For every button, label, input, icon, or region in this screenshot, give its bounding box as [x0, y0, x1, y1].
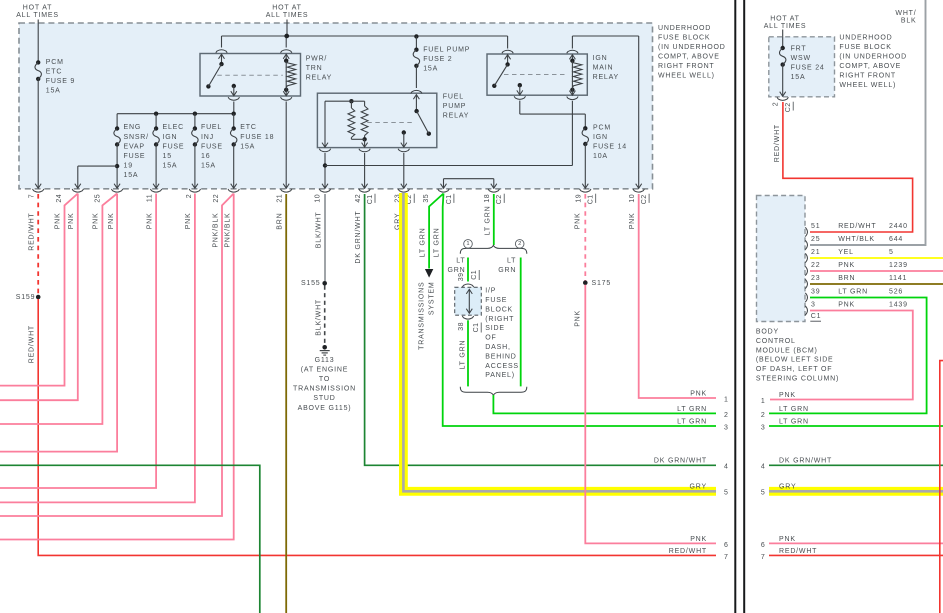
svg-text:1: 1	[724, 396, 729, 403]
svg-text:G113: G113	[315, 357, 335, 364]
svg-text:C1: C1	[473, 322, 480, 332]
svg-text:TRANSMISSIONS: TRANSMISSIONS	[418, 282, 425, 350]
svg-text:PNK: PNK	[146, 213, 153, 230]
svg-text:GRY: GRY	[779, 484, 796, 491]
svg-text:38: 38	[458, 322, 465, 331]
svg-text:ELEC: ELEC	[163, 124, 185, 131]
svg-text:21: 21	[277, 194, 284, 203]
svg-text:C1: C1	[588, 194, 595, 204]
svg-text:ACCESS: ACCESS	[485, 363, 519, 370]
svg-text:5: 5	[724, 490, 729, 497]
svg-text:RIGHT FRONT: RIGHT FRONT	[839, 73, 896, 80]
svg-text:COMPT, ABOVE: COMPT, ABOVE	[658, 54, 720, 61]
svg-text:4: 4	[724, 464, 729, 471]
svg-text:LT GRN: LT GRN	[838, 289, 868, 296]
svg-text:HOT AT: HOT AT	[23, 5, 52, 12]
svg-text:PNK: PNK	[838, 262, 855, 269]
svg-text:22: 22	[811, 262, 820, 269]
svg-text:BLK/WHT: BLK/WHT	[315, 299, 322, 336]
svg-text:FUSE: FUSE	[485, 297, 507, 304]
svg-text:2: 2	[772, 102, 779, 106]
svg-text:RED/WHT: RED/WHT	[28, 213, 35, 251]
svg-text:PNK: PNK	[779, 536, 796, 543]
svg-text:FUSE: FUSE	[163, 143, 185, 150]
svg-text:21: 21	[811, 249, 820, 256]
svg-text:INJ: INJ	[201, 134, 214, 141]
svg-text:C2: C2	[641, 194, 648, 204]
svg-text:PNK/BLK: PNK/BLK	[212, 213, 219, 248]
svg-text:LT GRN: LT GRN	[779, 418, 809, 425]
svg-text:(IN UNDERHOOD: (IN UNDERHOOD	[839, 54, 907, 61]
svg-text:BLOCK: BLOCK	[485, 306, 513, 313]
svg-text:CONTROL: CONTROL	[756, 338, 796, 345]
svg-text:C2: C2	[785, 102, 792, 112]
svg-text:WHT/BLK: WHT/BLK	[838, 236, 875, 243]
svg-text:I/P: I/P	[485, 288, 496, 295]
svg-text:ETC: ETC	[240, 124, 256, 131]
svg-text:DASH,: DASH,	[485, 344, 510, 351]
svg-text:1439: 1439	[889, 302, 908, 309]
svg-text:BRN: BRN	[838, 275, 855, 282]
svg-text:24: 24	[56, 194, 63, 203]
svg-text:RED/WHT: RED/WHT	[838, 223, 876, 230]
svg-text:IGN: IGN	[163, 134, 178, 141]
svg-text:STEERING COLUMN): STEERING COLUMN)	[756, 376, 839, 383]
svg-text:BLK: BLK	[901, 18, 917, 25]
svg-text:DK GRN/WHT: DK GRN/WHT	[779, 458, 832, 465]
svg-text:SIDE: SIDE	[485, 325, 505, 332]
svg-text:HOT AT: HOT AT	[770, 16, 799, 23]
svg-text:MAIN: MAIN	[593, 64, 614, 71]
svg-text:C1: C1	[811, 313, 822, 320]
svg-text:2: 2	[186, 194, 193, 198]
svg-text:2: 2	[761, 412, 766, 419]
svg-text:RED/WHT: RED/WHT	[28, 325, 35, 363]
svg-text:COMPT, ABOVE: COMPT, ABOVE	[839, 63, 901, 70]
svg-text:(IN UNDERHOOD: (IN UNDERHOOD	[658, 44, 726, 51]
svg-text:RELAY: RELAY	[443, 113, 469, 120]
svg-text:FUSE BLOCK: FUSE BLOCK	[658, 35, 710, 42]
svg-text:5: 5	[889, 249, 894, 256]
svg-text:6: 6	[724, 542, 729, 549]
svg-text:RED/WHT: RED/WHT	[669, 548, 707, 555]
svg-text:FUSE 24: FUSE 24	[791, 64, 825, 71]
svg-text:RIGHT FRONT: RIGHT FRONT	[658, 63, 715, 70]
svg-text:16: 16	[201, 153, 210, 160]
svg-text:PNK: PNK	[690, 390, 707, 397]
svg-text:42: 42	[355, 194, 362, 203]
svg-text:2: 2	[518, 241, 521, 247]
svg-text:FUSE 9: FUSE 9	[46, 78, 75, 85]
svg-text:23: 23	[811, 275, 820, 282]
svg-text:15A: 15A	[240, 143, 255, 150]
svg-text:5: 5	[761, 490, 766, 497]
svg-text:19: 19	[576, 194, 583, 203]
svg-text:15A: 15A	[163, 163, 178, 170]
svg-text:ETC: ETC	[46, 68, 62, 75]
svg-text:PCM: PCM	[46, 59, 64, 66]
svg-text:(AT ENGINE: (AT ENGINE	[301, 366, 348, 373]
svg-text:FUSE: FUSE	[124, 153, 146, 160]
svg-text:LT GRN: LT GRN	[677, 406, 707, 413]
svg-text:PNK: PNK	[838, 302, 855, 309]
svg-text:RELAY: RELAY	[306, 75, 332, 82]
svg-text:10A: 10A	[593, 153, 608, 160]
svg-text:3: 3	[811, 302, 816, 309]
svg-text:3: 3	[761, 424, 766, 431]
svg-text:BEHIND: BEHIND	[485, 353, 516, 360]
svg-text:25: 25	[94, 194, 101, 203]
svg-text:PNK: PNK	[93, 213, 100, 230]
svg-text:S159: S159	[16, 294, 36, 301]
svg-text:15: 15	[163, 153, 172, 160]
svg-text:LT GRN: LT GRN	[433, 228, 440, 258]
svg-text:DK GRN/WHT: DK GRN/WHT	[355, 211, 362, 264]
svg-text:1141: 1141	[889, 275, 907, 282]
svg-text:STUD: STUD	[313, 395, 335, 402]
svg-text:LT GRN: LT GRN	[459, 340, 466, 370]
svg-text:LT GRN: LT GRN	[677, 418, 707, 425]
svg-text:WHEEL WELL): WHEEL WELL)	[658, 73, 715, 80]
svg-text:1: 1	[761, 398, 766, 405]
svg-text:15A: 15A	[791, 74, 806, 81]
svg-text:PNK: PNK	[779, 392, 796, 399]
svg-text:18: 18	[484, 194, 491, 203]
svg-text:10: 10	[315, 194, 322, 203]
svg-text:LT GRN: LT GRN	[420, 228, 427, 258]
svg-text:IGN: IGN	[593, 55, 608, 62]
svg-text:EVAP: EVAP	[124, 143, 145, 150]
svg-text:FUEL: FUEL	[201, 124, 222, 131]
svg-text:FUSE: FUSE	[201, 143, 223, 150]
svg-text:51: 51	[811, 223, 820, 230]
svg-text:PCM: PCM	[593, 125, 611, 132]
svg-text:C2: C2	[496, 194, 503, 204]
svg-text:FUEL: FUEL	[443, 94, 464, 101]
svg-text:1239: 1239	[889, 262, 908, 269]
svg-text:OF: OF	[485, 335, 496, 342]
svg-text:BLK/WHT: BLK/WHT	[315, 212, 322, 249]
svg-text:PNK: PNK	[574, 213, 581, 230]
svg-text:6: 6	[761, 542, 766, 549]
svg-text:PNK: PNK	[55, 213, 62, 230]
svg-text:WHT/: WHT/	[895, 10, 916, 17]
svg-text:DK GRN/WHT: DK GRN/WHT	[654, 458, 707, 465]
svg-text:(BELOW LEFT SIDE: (BELOW LEFT SIDE	[756, 357, 834, 364]
svg-text:C1: C1	[367, 194, 374, 204]
svg-text:TO: TO	[319, 376, 330, 383]
svg-text:WHEEL WELL): WHEEL WELL)	[839, 82, 896, 89]
svg-text:25: 25	[811, 236, 820, 243]
svg-text:7: 7	[724, 554, 729, 561]
svg-text:39: 39	[458, 273, 465, 282]
svg-text:LT GRN: LT GRN	[485, 206, 492, 236]
svg-text:1: 1	[466, 241, 469, 247]
svg-text:S155: S155	[301, 280, 321, 287]
svg-text:UNDERHOOD: UNDERHOOD	[658, 25, 711, 32]
svg-text:FUSE 2: FUSE 2	[423, 56, 452, 63]
svg-text:ABOVE G115): ABOVE G115)	[298, 405, 352, 412]
svg-text:PNK: PNK	[68, 213, 75, 230]
svg-text:PNK: PNK	[108, 213, 115, 230]
svg-text:ALL TIMES: ALL TIMES	[16, 12, 59, 19]
svg-text:SYSTEM: SYSTEM	[429, 282, 436, 316]
svg-text:3: 3	[724, 424, 729, 431]
svg-text:ALL TIMES: ALL TIMES	[266, 12, 309, 19]
svg-text:C1: C1	[446, 194, 453, 204]
svg-text:C1: C1	[471, 270, 478, 280]
svg-text:FRT: FRT	[791, 45, 807, 52]
svg-text:MODULE (BCM): MODULE (BCM)	[756, 347, 818, 354]
svg-text:7: 7	[28, 194, 35, 198]
svg-text:PNK: PNK	[690, 536, 707, 543]
svg-text:11: 11	[147, 194, 154, 202]
svg-text:15A: 15A	[46, 87, 61, 94]
svg-text:YEL: YEL	[838, 249, 854, 256]
svg-text:PANEL): PANEL)	[485, 372, 515, 379]
svg-text:15A: 15A	[423, 66, 438, 73]
svg-text:UNDERHOOD: UNDERHOOD	[839, 35, 892, 42]
svg-text:S175: S175	[592, 280, 612, 287]
svg-text:35: 35	[423, 194, 430, 203]
svg-text:RED/WHT: RED/WHT	[774, 124, 781, 162]
svg-text:7: 7	[761, 554, 766, 561]
svg-text:FUSE 18: FUSE 18	[240, 134, 274, 141]
svg-text:GRN: GRN	[498, 267, 516, 274]
svg-text:644: 644	[889, 236, 903, 243]
svg-text:4: 4	[761, 464, 766, 471]
svg-text:GRY: GRY	[690, 484, 707, 491]
svg-text:LT: LT	[507, 258, 516, 265]
svg-text:PNK: PNK	[185, 213, 192, 230]
svg-text:PWR/: PWR/	[306, 56, 327, 63]
svg-text:TRANSMISSION: TRANSMISSION	[293, 386, 356, 393]
svg-text:2440: 2440	[889, 223, 908, 230]
svg-text:PNK: PNK	[574, 310, 581, 327]
svg-text:SNSR/: SNSR/	[124, 134, 149, 141]
svg-text:TRN: TRN	[306, 65, 323, 72]
svg-text:HOT AT: HOT AT	[272, 5, 301, 12]
svg-text:OF DASH, LEFT OF: OF DASH, LEFT OF	[756, 366, 832, 373]
svg-text:RELAY: RELAY	[593, 74, 619, 81]
svg-text:ALL TIMES: ALL TIMES	[764, 23, 807, 30]
svg-text:RED/WHT: RED/WHT	[779, 548, 817, 555]
svg-text:BRN: BRN	[277, 213, 284, 230]
svg-text:BODY: BODY	[756, 329, 779, 336]
svg-text:19: 19	[124, 163, 133, 170]
svg-text:WSW: WSW	[791, 55, 811, 62]
svg-text:PNK/BLK: PNK/BLK	[225, 213, 232, 248]
svg-text:526: 526	[889, 289, 903, 296]
svg-text:22: 22	[213, 194, 220, 203]
svg-text:FUSE BLOCK: FUSE BLOCK	[839, 44, 891, 51]
svg-text:10: 10	[629, 194, 636, 203]
svg-text:15A: 15A	[124, 172, 139, 179]
svg-text:PNK: PNK	[629, 213, 636, 230]
svg-text:FUSE 14: FUSE 14	[593, 144, 627, 151]
svg-text:(RIGHT: (RIGHT	[485, 316, 514, 323]
svg-text:15A: 15A	[201, 163, 216, 170]
svg-text:LT GRN: LT GRN	[779, 406, 809, 413]
svg-text:2: 2	[724, 412, 729, 419]
svg-text:LT: LT	[456, 258, 465, 265]
svg-text:FUEL PUMP: FUEL PUMP	[423, 47, 470, 54]
svg-text:IGN: IGN	[593, 134, 608, 141]
svg-text:PUMP: PUMP	[443, 103, 466, 110]
svg-text:39: 39	[811, 289, 820, 296]
svg-text:ENG: ENG	[124, 124, 142, 131]
